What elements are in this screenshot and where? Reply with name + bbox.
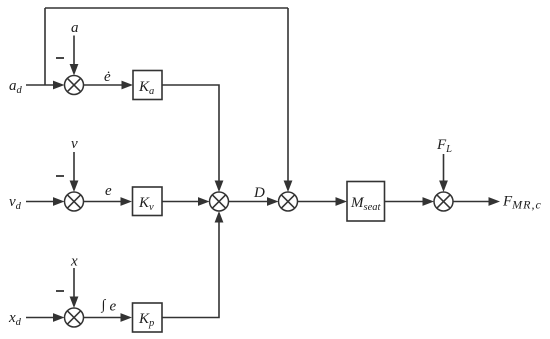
arrowhead x_d into S3 — [53, 313, 65, 322]
svg-text:FMR,c: FMR,c — [502, 194, 542, 212]
minus sign row 1 — [56, 57, 64, 59]
svg-text:vd: vd — [9, 194, 22, 212]
svg-text:v: v — [71, 136, 78, 152]
svg-text:D: D — [253, 185, 265, 201]
wire Kv to Sc — [162, 201, 201, 203]
block Ka — [133, 71, 162, 100]
minus sign row 3 — [56, 290, 64, 292]
summing junction S3 — [65, 308, 84, 327]
wire Ka output — [162, 85, 219, 183]
arrowhead into Kv — [121, 197, 133, 206]
wire v input — [73, 152, 75, 183]
arrowhead into Kp — [121, 313, 133, 322]
arrowhead Ka output down into Sc — [215, 181, 224, 193]
summing junction S1 — [65, 76, 84, 95]
arrowhead v_d into S2 — [53, 197, 65, 206]
svg-text:a: a — [71, 20, 79, 36]
minus sign row 2 — [56, 175, 64, 177]
wire v_d input — [26, 201, 55, 203]
arrowhead into Mseat — [336, 197, 348, 206]
arrowhead into Ka — [122, 81, 134, 90]
wire Sc to S4 (signal D) — [229, 201, 270, 203]
wire S3 to Kp — [84, 317, 124, 319]
arrowhead F_L into S5 — [439, 181, 448, 193]
wire Kp output up to Sc — [162, 221, 219, 318]
wire feedback branch vertical — [44, 8, 46, 85]
svg-text:ad: ad — [9, 78, 23, 96]
wire a input — [73, 36, 75, 67]
arrowhead x into S3 — [70, 297, 79, 309]
arrowhead a_d into S1 — [53, 81, 65, 90]
arrowhead v into S2 — [70, 181, 79, 193]
block Kv — [133, 187, 163, 216]
wire S4 to Mseat — [298, 201, 339, 203]
summing junction S2 — [65, 192, 84, 211]
wire feedback top horizontal — [45, 7, 288, 9]
arrowhead a into S1 — [70, 64, 79, 76]
arrowhead feedback down into S4 — [284, 181, 293, 193]
wire a_d input — [26, 84, 55, 86]
svg-text:FL: FL — [436, 137, 452, 155]
arrowhead Kv into Sc — [198, 197, 210, 206]
wire x input — [73, 268, 75, 299]
wire Mseat to S5 — [385, 201, 426, 203]
svg-text:x: x — [70, 254, 78, 270]
arrowhead D into S4 — [267, 197, 279, 206]
svg-text:xd: xd — [8, 310, 22, 328]
wire F_L input — [443, 154, 445, 183]
svg-text:e: e — [110, 299, 117, 315]
svg-text:∫: ∫ — [101, 298, 107, 313]
arrowhead Kp output up into Sc — [215, 211, 224, 223]
block Kp — [133, 303, 163, 332]
summing junction S5 — [434, 192, 453, 211]
arrowhead Mseat into S5 — [423, 197, 435, 206]
wire feedback down to junction S4 — [287, 8, 289, 183]
wire x_d input — [26, 317, 55, 319]
block Mseat — [347, 182, 385, 222]
wire S1 to Ka — [84, 84, 125, 86]
arrowhead output — [489, 197, 501, 206]
svg-text:e: e — [105, 183, 112, 199]
svg-text:ė: ė — [104, 69, 111, 85]
wire S2 to Kv — [84, 201, 124, 203]
summing junction Sc — [210, 192, 229, 211]
wire output F_MR,c — [453, 201, 491, 203]
summing junction S4 — [279, 192, 298, 211]
